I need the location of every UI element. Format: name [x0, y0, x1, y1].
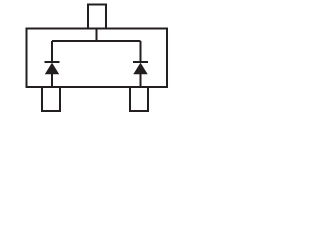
wire from pin 3 down to common node: [96, 29, 98, 42]
diode D1 cathode bar: [45, 61, 60, 63]
pin 1 (bottom left lead): [42, 87, 60, 111]
package body: [27, 29, 168, 88]
diode D1 anode triangle: [45, 63, 59, 75]
wire left anode to body bottom: [51, 73, 53, 87]
wire horizontal common-cathode bus: [52, 40, 141, 42]
diode D2 cathode bar: [133, 61, 148, 63]
wire right anode to body bottom: [140, 73, 142, 87]
diode D2 anode triangle: [133, 63, 147, 75]
pin 3 (top lead): [88, 5, 106, 29]
wire left cathode drop: [51, 41, 53, 62]
wire right cathode drop: [140, 41, 142, 62]
pin 2 (bottom right lead): [130, 87, 148, 111]
